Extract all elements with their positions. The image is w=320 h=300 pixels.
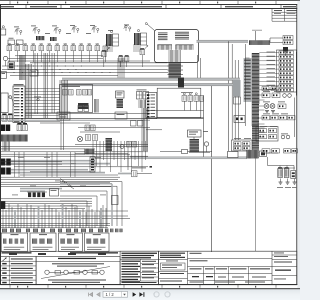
riser bundle bbox=[117, 58, 119, 78]
lamp cluster L5 bbox=[93, 27, 95, 29]
junction box dark bbox=[1, 202, 6, 210]
bus wire bbox=[78, 127, 150, 129]
connector CN-A11 bbox=[87, 46, 92, 51]
top ruler zone numbers bbox=[17, 2, 18, 4]
long riser wire bbox=[203, 96, 205, 159]
collector bus bbox=[1, 225, 110, 227]
connector CN-A8 bbox=[63, 46, 68, 51]
ladder header label bbox=[14, 84, 24, 85]
viewer background strip bbox=[0, 289, 300, 300]
fuse box stems bbox=[105, 44, 107, 52]
terminal strip box TB1 bbox=[1, 233, 28, 252]
wire bbox=[255, 31, 257, 41]
bus wire bbox=[2, 69, 168, 71]
connector CN-N3 bbox=[17, 125, 22, 131]
bus wire bbox=[8, 57, 103, 59]
T/M cable bbox=[117, 99, 124, 108]
cab box terminal comb 1 bbox=[158, 44, 173, 46]
lamp symbol bbox=[120, 145, 124, 149]
inline connector bbox=[182, 150, 188, 154]
connector CN-Q2 bbox=[272, 149, 280, 153]
wire bbox=[95, 157, 130, 159]
toolbar next-page button bbox=[133, 292, 137, 297]
sensor SN2 bbox=[140, 50, 145, 55]
component labels above connector row bbox=[7, 43, 11, 46]
wire bbox=[1, 207, 85, 209]
motor symbol M5 bbox=[77, 136, 82, 141]
connector CN-D1 bbox=[262, 93, 270, 98]
panel label bbox=[267, 59, 276, 62]
wire bbox=[1, 161, 62, 163]
wire bbox=[1, 146, 148, 148]
bottom inner border bbox=[0, 284, 297, 286]
wire bbox=[14, 166, 148, 168]
wire bbox=[20, 174, 118, 176]
connector CN-P2 bbox=[91, 125, 96, 131]
ground bbox=[265, 110, 269, 112]
small box above notes bbox=[112, 196, 119, 205]
connector CN-H2 bbox=[69, 90, 74, 96]
starter motor ST bbox=[291, 171, 296, 179]
cable bundle left bbox=[2, 142, 4, 152]
connector CN-A15 bbox=[125, 57, 129, 62]
connector CN-F3 bbox=[259, 135, 267, 139]
radio label bbox=[203, 130, 208, 133]
bus wire bbox=[30, 62, 168, 64]
connector CN-N1 bbox=[2, 115, 7, 121]
cab harness box outline bbox=[155, 30, 199, 63]
diode box D1 bbox=[283, 47, 288, 52]
long riser wire to title block bbox=[211, 86, 213, 252]
wire bbox=[1, 153, 130, 155]
wire bbox=[146, 129, 162, 131]
connector CN-E2 bbox=[271, 116, 279, 120]
leader line to cab box bbox=[147, 24, 155, 31]
bulkhead connector X2 bbox=[1, 168, 6, 175]
connector CN-H4 bbox=[83, 90, 88, 96]
crossing riser wires bbox=[92, 141, 94, 160]
highlighted wire bus bbox=[197, 40, 249, 42]
connector CN-F1 bbox=[259, 129, 267, 133]
harness hatch band H1 bbox=[249, 40, 270, 45]
gray drop wires bbox=[14, 210, 16, 228]
connector CN-G3 bbox=[234, 146, 242, 150]
bulkhead connector X1 bbox=[1, 159, 6, 166]
connector CN-N4 bbox=[23, 125, 28, 131]
terminal group labels bbox=[9, 253, 17, 255]
bus wire gray bbox=[1, 119, 150, 121]
relay box K6 bbox=[232, 140, 253, 151]
heat treatment cell bbox=[190, 260, 208, 261]
wire bbox=[1, 151, 148, 153]
cable bundle bbox=[94, 99, 96, 113]
connector CN-A4 bbox=[31, 46, 36, 51]
gray harness wire bbox=[11, 169, 88, 171]
connector CN-A7 bbox=[55, 46, 60, 51]
connector CN-E4 bbox=[288, 116, 296, 120]
tolerance table frame bbox=[36, 257, 120, 285]
wire bbox=[1, 163, 62, 165]
panel wire bbox=[259, 56, 279, 58]
ground bbox=[286, 181, 290, 183]
tolerance caption text bbox=[48, 280, 106, 281]
label bbox=[137, 89, 147, 92]
cable bundle bbox=[141, 108, 143, 151]
battery top wires bbox=[278, 167, 295, 169]
lamp symbol bbox=[283, 94, 287, 98]
stub bbox=[150, 166, 153, 168]
connector CN-B1 bbox=[279, 51, 294, 54]
motor symbol M4 bbox=[270, 104, 275, 109]
caution text: drawing no bbox=[1, 6, 14, 7]
lamp cluster L1 bbox=[16, 29, 18, 31]
junction dot row 3 bbox=[13, 71, 16, 74]
wire bbox=[267, 152, 279, 154]
tap wires bbox=[245, 57, 249, 59]
inline box on bus bbox=[228, 152, 239, 158]
gray harness wire bbox=[20, 188, 62, 190]
terminal entry hatch clusters bbox=[2, 229, 7, 233]
panel label bbox=[267, 80, 276, 83]
wire bbox=[1, 155, 148, 157]
cab box side wires bbox=[197, 55, 199, 78]
harness hatch block H2 bbox=[247, 150, 259, 159]
revision table bbox=[272, 11, 297, 13]
riser bundle bbox=[25, 64, 27, 118]
panel label bbox=[267, 63, 276, 66]
module box M1 bbox=[1, 72, 7, 79]
terminal strip box TB3 bbox=[59, 233, 83, 252]
legend symbols and text bbox=[2, 258, 7, 262]
relay box K1 bbox=[8, 62, 15, 70]
toolbar page input box bbox=[103, 291, 128, 297]
title bottom row bbox=[159, 278, 188, 280]
bus wire bbox=[1, 118, 204, 120]
bus border lines bbox=[62, 77, 240, 79]
bend wire L2 bbox=[60, 185, 117, 187]
component box M2 bbox=[30, 70, 38, 76]
tap wires right bbox=[258, 94, 265, 96]
wire bbox=[270, 37, 283, 39]
connector CN-E1 bbox=[262, 116, 270, 120]
node circle bbox=[9, 96, 12, 99]
riser bundle bbox=[43, 53, 45, 118]
junction box JB2 bbox=[234, 116, 245, 123]
wire bbox=[146, 117, 204, 119]
fuse block F1 bbox=[36, 36, 45, 40]
small box pair bbox=[78, 106, 83, 112]
sensor SN1 bbox=[102, 52, 107, 57]
wire bbox=[146, 110, 204, 112]
long riser wire right bbox=[255, 159, 257, 252]
gray harness wire bbox=[118, 173, 132, 175]
highlighted bus lower-right bbox=[130, 157, 247, 159]
component box E1 bbox=[57, 112, 70, 120]
switch box SW2 bbox=[17, 40, 24, 45]
panel wire bbox=[259, 64, 279, 66]
company name text bbox=[160, 253, 185, 254]
wire bbox=[1, 210, 128, 212]
terminal strip box TB2 bbox=[30, 233, 56, 252]
riser bundle bbox=[51, 53, 53, 113]
gray harness wire bbox=[11, 172, 105, 174]
ground bbox=[271, 110, 275, 112]
connector CN-D2 bbox=[272, 93, 280, 98]
panel label bbox=[267, 67, 276, 70]
panel wire bbox=[259, 76, 279, 78]
ground stems bbox=[280, 179, 282, 183]
wire bbox=[75, 153, 128, 155]
connector CN-A5 bbox=[39, 46, 44, 51]
connector CN-D0a bbox=[262, 87, 269, 91]
collector bus bbox=[1, 227, 108, 229]
component box bbox=[50, 189, 59, 197]
caution text: drawing note bbox=[283, 6, 296, 7]
cab trunk cable bbox=[169, 62, 182, 80]
bus wire bbox=[1, 72, 168, 74]
panel wire bbox=[259, 68, 279, 70]
leader end node bbox=[145, 23, 147, 25]
connector CN-A6 bbox=[47, 46, 52, 51]
toolbar prev-page button bbox=[97, 293, 100, 297]
model row bbox=[159, 259, 188, 261]
bus wire bbox=[15, 55, 103, 57]
sheet top edge bbox=[0, 0, 300, 2]
connector CN-A14 bbox=[119, 57, 123, 62]
fuse box FB2 bbox=[134, 33, 141, 45]
connector CN-F4 bbox=[269, 135, 277, 139]
wire bbox=[193, 137, 195, 139]
caution band dividers bbox=[25, 5, 27, 9]
bottom ruler zone numbers bbox=[17, 286, 18, 288]
ground bbox=[293, 181, 297, 183]
panel label bbox=[267, 51, 276, 54]
gray bend wire bbox=[60, 183, 112, 185]
junction dots on bus bbox=[9, 66, 10, 67]
caution band top border bbox=[0, 4, 297, 6]
connector CN-A2 bbox=[15, 46, 20, 51]
toolbar rotate-cw button bbox=[165, 292, 170, 297]
main trunk cable lower bbox=[252, 104, 259, 126]
panel wire bbox=[259, 85, 279, 87]
bus wire bbox=[2, 65, 170, 67]
signature values bbox=[192, 276, 199, 277]
connector CN-L4 bbox=[200, 96, 204, 102]
fuse box FB1 bbox=[106, 34, 113, 46]
transformer symbol bbox=[3, 56, 7, 60]
panel wire bbox=[259, 81, 279, 83]
wire bbox=[137, 173, 152, 175]
connector CN-G4 bbox=[243, 146, 251, 150]
right edge riser bbox=[294, 98, 296, 138]
connector CN-B9 bbox=[279, 84, 294, 87]
node circle B bbox=[37, 98, 39, 100]
panel wire bbox=[259, 89, 279, 91]
switch box SW1 bbox=[8, 40, 15, 45]
bus junction block bbox=[178, 78, 184, 88]
control unit box bbox=[157, 88, 201, 118]
connector CN-D3 bbox=[278, 104, 286, 109]
toolbar first-page button bbox=[89, 293, 93, 297]
bus wire bbox=[80, 131, 120, 133]
connector CN-K2 bbox=[93, 135, 98, 141]
highlighted bus lower bbox=[62, 83, 240, 85]
junction harness JB1 bbox=[244, 58, 252, 102]
fuse block F2 bbox=[50, 37, 57, 41]
connector CN-L2 bbox=[188, 96, 193, 102]
connector CN-K1 bbox=[86, 135, 91, 141]
connector CN-B6 bbox=[279, 72, 294, 75]
harness block bbox=[106, 138, 113, 151]
component row labels bbox=[263, 90, 270, 93]
main trunk cable bbox=[252, 53, 259, 104]
harness hatch block H3 bbox=[85, 149, 95, 155]
wire bbox=[1, 181, 110, 183]
bus end cap bbox=[233, 80, 241, 97]
connector CN-B4 bbox=[279, 63, 294, 66]
terminal drop wires bbox=[2, 207, 4, 228]
drawing no cells bbox=[272, 254, 297, 256]
offpage sliver bbox=[297, 1, 300, 289]
legend table frame bbox=[1, 257, 37, 285]
highlighted bus upper bbox=[62, 78, 240, 80]
toolbar rotate-ccw button bbox=[154, 292, 159, 297]
caution text: do not operate bbox=[30, 6, 57, 7]
seat heater label bbox=[132, 167, 146, 170]
connector CN-A13 bbox=[103, 46, 108, 51]
wire bbox=[1, 179, 118, 181]
top ruler ticks bbox=[9, 1, 11, 4]
connector CN-H5 bbox=[88, 90, 92, 96]
connector grid CN-J1 bbox=[137, 92, 143, 100]
battery B1 bbox=[278, 169, 283, 178]
bend wire L5 bbox=[60, 200, 87, 202]
bend wire L4 bbox=[60, 195, 97, 197]
wire bbox=[1, 198, 92, 200]
connector CN-E3 bbox=[279, 116, 287, 120]
cab wiring label bbox=[252, 29, 262, 32]
gray harness wire bbox=[11, 163, 110, 165]
comb wire bundle bbox=[168, 50, 170, 62]
bend wire L6 bbox=[60, 205, 77, 207]
wire bundle vertical bbox=[59, 80, 61, 119]
tolerance note text bbox=[52, 263, 104, 264]
connector pair CN-R1 bbox=[283, 36, 293, 40]
connector CN-G1 bbox=[234, 142, 242, 146]
gray harness wire bbox=[20, 190, 45, 192]
connector CN-B10 bbox=[279, 88, 294, 91]
main trunk cable tail bbox=[252, 126, 259, 158]
connector CN-H3 bbox=[77, 90, 82, 96]
wire bbox=[1, 215, 128, 217]
svg-text:1 / 2: 1 / 2 bbox=[106, 292, 115, 297]
connector stem wires bbox=[183, 101, 185, 110]
bottom ruler ticks bbox=[9, 285, 11, 288]
bus wire bbox=[25, 113, 150, 115]
cab front box bbox=[60, 85, 93, 113]
riser stubs bbox=[14, 152, 16, 177]
caution band bottom border bbox=[0, 8, 297, 10]
mini ladder bbox=[90, 157, 95, 172]
panel label bbox=[267, 84, 276, 87]
wire bbox=[1, 205, 92, 207]
wire bbox=[1, 218, 130, 220]
connector CN-B3 bbox=[279, 59, 294, 62]
right column riser wires bbox=[228, 41, 230, 151]
collector bus bbox=[1, 222, 110, 224]
relay ladder block RL1 bbox=[13, 86, 25, 123]
ground bbox=[279, 181, 283, 183]
small box E4 bbox=[138, 121, 144, 127]
bulkhead connector X0 bbox=[1, 125, 5, 132]
cable bundle bbox=[138, 100, 140, 108]
relay ladder block RL2 bbox=[1, 93, 8, 113]
connector CN-N2 bbox=[8, 115, 13, 121]
caution text: third angle projection bbox=[225, 6, 253, 7]
connector CN-Q3 bbox=[284, 149, 291, 153]
fusible link box bbox=[260, 151, 267, 157]
connector CN-A1 bbox=[7, 46, 12, 51]
bend wires bbox=[60, 179, 74, 190]
connector CN-K3 bbox=[127, 142, 132, 148]
relay group bbox=[78, 103, 89, 109]
connector CN-B2 bbox=[279, 55, 294, 58]
connector grid CN-J2 bbox=[143, 92, 149, 100]
lamp symbol bbox=[281, 135, 285, 139]
bus wire bbox=[8, 60, 150, 62]
bus wire bbox=[40, 122, 90, 124]
speaker symbol bbox=[204, 142, 208, 146]
sheet left border bbox=[0, 5, 2, 286]
wire bbox=[75, 143, 148, 145]
panel label bbox=[267, 71, 276, 74]
battery B2 bbox=[284, 169, 289, 178]
connector panel box bbox=[277, 50, 297, 92]
relay box K5 bbox=[256, 127, 278, 142]
wire bbox=[1, 186, 112, 188]
connector CN-A3 bbox=[23, 46, 28, 51]
small box E3 bbox=[131, 121, 137, 127]
wire bbox=[30, 171, 95, 173]
material cell bbox=[190, 253, 202, 254]
connector CN-M1 bbox=[132, 171, 138, 177]
connector CN-B7 bbox=[279, 76, 294, 79]
wire bbox=[1, 203, 92, 205]
riser bundle bbox=[34, 53, 36, 114]
panel wire bbox=[259, 60, 279, 62]
wire bbox=[1, 200, 92, 202]
cab box terminal comb 2 bbox=[176, 44, 194, 46]
T/M control box bbox=[116, 91, 125, 98]
tolerance diagram bbox=[45, 270, 49, 274]
terminal strip box TB4 bbox=[85, 233, 110, 252]
sheet right border bbox=[296, 5, 298, 286]
panel label bbox=[267, 88, 276, 91]
cab box label text block 1 bbox=[158, 32, 168, 35]
connector CN-Q4 bbox=[292, 149, 298, 153]
panel wire bbox=[259, 72, 279, 74]
component box E2 bbox=[115, 112, 127, 119]
ladder output wires bbox=[25, 88, 60, 90]
harness band bbox=[1, 135, 28, 142]
lamp cluster L2 bbox=[34, 28, 36, 30]
radio unit box bbox=[188, 130, 202, 137]
panel wire bbox=[259, 52, 279, 54]
lamp cluster L4 bbox=[73, 27, 75, 29]
tiny labels field bbox=[18, 156, 24, 159]
bend wire L1 bbox=[60, 181, 122, 183]
radio harness bbox=[190, 139, 200, 152]
